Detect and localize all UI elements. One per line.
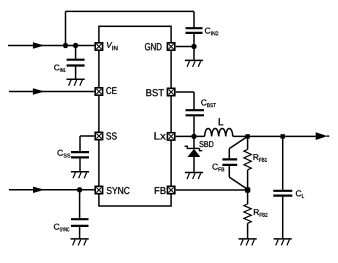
- capacitor CBST: [186, 110, 205, 136]
- pin label SYNC: [107, 187, 130, 194]
- pin label Lx: [155, 132, 166, 139]
- label RFB2: [254, 209, 268, 217]
- ground CSYNC: [71, 239, 89, 246]
- label CBST: [201, 100, 216, 108]
- resistor RFB1: [244, 136, 251, 187]
- label CSYNC: [54, 224, 69, 232]
- wire BST to CBST: [176, 92, 194, 109]
- ground CSS: [71, 172, 89, 179]
- pin FB box: [167, 186, 174, 193]
- wire SYNC drop to CSYNC: [79, 190, 81, 218]
- arrow VIN input: [33, 42, 45, 48]
- wire SYNC input line: [9, 189, 94, 191]
- ground GND node: [185, 60, 203, 67]
- arrow SYNC input: [33, 187, 45, 193]
- inductor L: [205, 129, 233, 137]
- wire top rail drop to CIN2: [193, 11, 195, 27]
- label CIN2: [205, 28, 218, 36]
- arrow CE input: [33, 88, 45, 94]
- ground CL: [274, 239, 292, 246]
- ground RFB2: [239, 239, 257, 246]
- wire top rail: [66, 10, 195, 12]
- label SBD: [199, 141, 213, 147]
- label CIN1: [54, 65, 65, 72]
- wire GND node down: [193, 47, 195, 60]
- pin GND box: [167, 43, 174, 50]
- node junction dot GND: [191, 44, 196, 49]
- wire CIN1 drop: [75, 46, 77, 59]
- pin label SS: [106, 132, 116, 139]
- capacitor CL: [273, 136, 292, 238]
- ground CIN1: [67, 79, 85, 86]
- label CSS: [58, 150, 71, 158]
- pin label FB: [155, 187, 166, 194]
- pin SYNC box: [95, 186, 102, 193]
- label RFB1: [254, 154, 268, 162]
- resistor RFB2: [244, 190, 251, 238]
- pin label GND: [145, 43, 162, 50]
- wire SS to CSS: [80, 136, 94, 151]
- pin label VIN: [107, 42, 118, 50]
- pin SS box: [95, 132, 102, 139]
- node output-2: [281, 134, 285, 138]
- node FB junction: [245, 187, 250, 192]
- wire VIN input line: [8, 45, 94, 47]
- pin VIN box: [95, 43, 102, 50]
- node junction dot Lx: [191, 134, 196, 139]
- pin label CE: [106, 87, 116, 94]
- pin label BST: [146, 89, 164, 96]
- capacitor CSS: [71, 152, 89, 171]
- capacitor CIN2: [186, 28, 203, 46]
- wire FB line: [176, 189, 248, 191]
- arrow output: [316, 132, 328, 140]
- wire output line: [233, 135, 329, 137]
- label L: [219, 118, 224, 125]
- capacitor CSYNC: [71, 219, 89, 238]
- IC U1 body: [99, 26, 171, 206]
- wire Lx to inductor: [176, 135, 205, 137]
- node junction dot VIN-1: [63, 43, 68, 48]
- node junction dot SYNC: [77, 187, 82, 192]
- ground SBD: [185, 173, 203, 180]
- label CL: [296, 190, 304, 198]
- pin Lx box: [167, 133, 174, 140]
- capacitor CFB: [222, 137, 247, 190]
- wire VIN riser to top: [65, 11, 67, 45]
- pin CE box: [95, 88, 102, 95]
- pin BST box: [167, 88, 174, 95]
- node junction dot VIN-2: [73, 43, 78, 48]
- wire GND pin to node: [176, 46, 194, 48]
- diode SBD (schottky): [185, 136, 203, 171]
- wire CE input line: [9, 91, 94, 93]
- node output-1: [245, 134, 249, 138]
- label CFB: [212, 164, 224, 172]
- capacitor CIN1: [67, 60, 85, 79]
